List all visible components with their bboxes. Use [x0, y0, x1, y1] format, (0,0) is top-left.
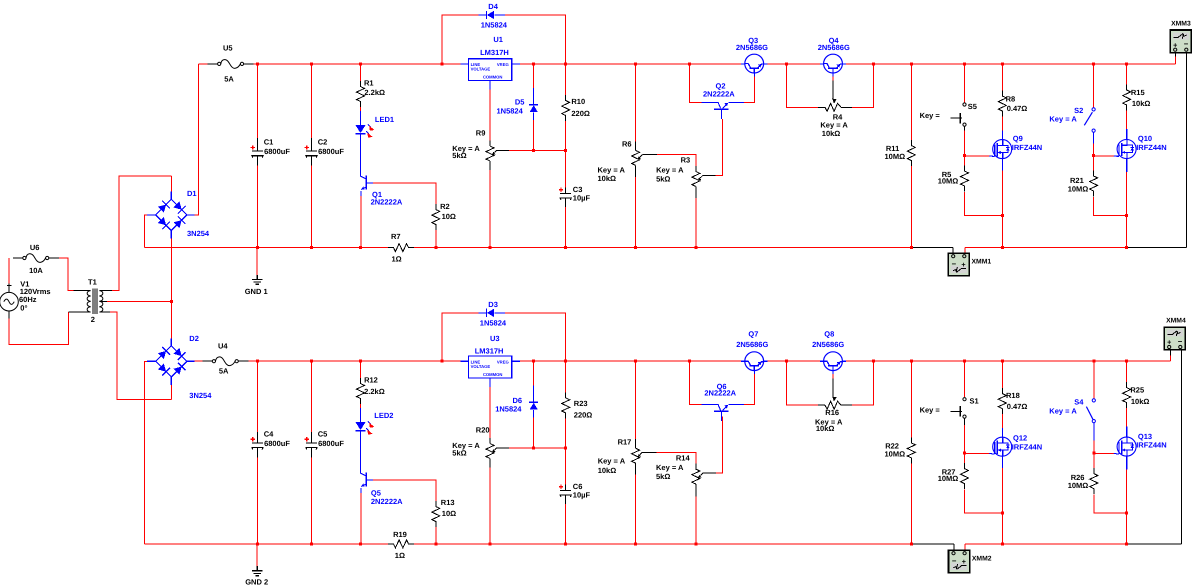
svg-text:GND 1: GND 1 [245, 287, 268, 296]
led LED2 [356, 411, 394, 435]
node S4 gate junction [1092, 451, 1095, 454]
wire Q13 source to rail [1126, 456, 1128, 470]
svg-text:Key = A: Key = A [1049, 406, 1077, 415]
node S5 gate junction [963, 154, 966, 157]
svg-text:R16: R16 [825, 408, 839, 417]
svg-text:LED1: LED1 [375, 115, 394, 124]
wire rail black segment to XMM1 [911, 247, 953, 249]
capacitor C2 [305, 138, 345, 158]
wire rail black segment to XMM2 [911, 543, 954, 545]
wire R20 wiper row [497, 447, 509, 449]
node bottom lower rail junctions [256, 542, 259, 545]
transistor Q2 [703, 81, 735, 119]
svg-text:VOLTAGE: VOLTAGE [471, 67, 491, 72]
svg-text:2N2222A: 2N2222A [371, 497, 403, 506]
multimeter XMM2 [953, 544, 955, 553]
wire R12 branch [360, 361, 362, 378]
svg-text:5kΩ: 5kΩ [656, 174, 670, 183]
svg-text:Q12: Q12 [1013, 434, 1027, 443]
potentiometer R17 [598, 438, 643, 475]
svg-text:6800uF: 6800uF [264, 439, 290, 448]
potentiometer R3 [656, 156, 703, 198]
transistor Q4 [818, 36, 850, 73]
wire U6 to T1 primary top [59, 258, 74, 291]
svg-text:Q7: Q7 [748, 330, 758, 339]
transistor Q7 [736, 330, 768, 371]
node top rail junctions [256, 62, 259, 65]
wire rail black to XMM4 minus [1127, 543, 1182, 545]
svg-text:COMMON: COMMON [483, 372, 503, 377]
wire D2 ac bottom [170, 385, 172, 400]
svg-text:10Ω: 10Ω [442, 509, 456, 518]
wire to ground 1 [256, 248, 258, 275]
wire D6 branch [533, 361, 535, 385]
svg-text:10kΩ: 10kΩ [1131, 397, 1150, 406]
svg-text:XMM1: XMM1 [972, 259, 992, 266]
resistor R18 [998, 388, 1027, 414]
wire top rail [254, 63, 461, 65]
wire R17 branch [635, 361, 637, 439]
svg-text:Key = A: Key = A [656, 463, 684, 472]
op-amp U3 LM317H regulator [461, 360, 469, 362]
fuse U5 [208, 43, 254, 83]
svg-text:R15: R15 [1131, 88, 1145, 97]
wire S2 to Q10 gate [1094, 155, 1114, 157]
wire S1 to Q12 gate [965, 452, 990, 454]
wire U3 common down to R20 [489, 378, 491, 387]
wire S5 branch [964, 64, 966, 103]
svg-text:S4: S4 [1074, 397, 1084, 406]
svg-text:IRFZ44N: IRFZ44N [1012, 143, 1042, 152]
potentiometer R20 [452, 426, 497, 468]
capacitor C1 [251, 138, 291, 158]
svg-text:Q10: Q10 [1138, 134, 1152, 143]
svg-text:1Ω: 1Ω [395, 551, 405, 560]
capacitor C5 [305, 430, 345, 450]
wire R13 to rail [435, 527, 437, 544]
svg-text:+: + [961, 260, 965, 269]
svg-text:2N5686G: 2N5686G [736, 43, 768, 52]
svg-text:C5: C5 [318, 430, 328, 439]
node S2 gate junction [1092, 154, 1095, 157]
diode D4 [481, 2, 508, 29]
wire top rail left [199, 63, 208, 65]
svg-text:10MΩ: 10MΩ [938, 474, 959, 483]
svg-text:6800uF: 6800uF [318, 147, 344, 156]
switch S4 [1049, 397, 1095, 422]
svg-text:10A: 10A [29, 266, 43, 275]
wire Q2 collector loop [690, 64, 702, 103]
svg-text:LED2: LED2 [374, 411, 393, 420]
op-amp U1 LM317H regulator [461, 63, 469, 65]
svg-text:10MΩ: 10MΩ [938, 176, 959, 185]
svg-text:D4: D4 [488, 2, 498, 11]
wire bottom top rail [248, 360, 460, 362]
wire Q4 base to R4 wiper [832, 73, 834, 76]
svg-text:10kΩ: 10kΩ [598, 466, 617, 475]
wire Q10 source to rail [1126, 159, 1128, 173]
multimeter XMM1 [952, 248, 954, 257]
mosfet Q10 [1117, 134, 1167, 158]
wire R21 bottom over to Q10 source [1094, 197, 1127, 215]
wire R9 wiper row [497, 149, 509, 151]
wire S2 branch [1093, 64, 1095, 108]
svg-text:Key = A: Key = A [1049, 115, 1077, 124]
wire R25 branch [1126, 361, 1128, 383]
svg-text:U5: U5 [223, 43, 233, 52]
svg-text:3N254: 3N254 [187, 229, 210, 238]
svg-text:220Ω: 220Ω [574, 411, 593, 420]
wire lower rail of bottom half [144, 543, 388, 545]
svg-text:U1: U1 [493, 35, 503, 44]
svg-text:T1: T1 [88, 277, 97, 286]
svg-text:5kΩ: 5kΩ [452, 449, 466, 458]
wire C5 branch [311, 361, 313, 432]
wire T1 secondary bottom to D2 ac [103, 311, 110, 313]
svg-text:10µF: 10µF [573, 490, 591, 499]
svg-text:S1: S1 [970, 396, 979, 405]
wire Q5 emitter to rail [360, 488, 362, 493]
transistor Q5 [361, 466, 404, 506]
svg-text:D5: D5 [515, 97, 525, 106]
svg-text:XMM2: XMM2 [972, 556, 992, 563]
wire Q8 base to R16 wiper [832, 371, 834, 374]
svg-text:R19: R19 [393, 530, 407, 539]
svg-text:−: − [952, 260, 957, 269]
bridge rectifier D1 [147, 189, 210, 238]
wire R22 branch [910, 361, 912, 437]
svg-text:2.2kΩ: 2.2kΩ [364, 88, 385, 97]
wire S1 branch [964, 361, 966, 397]
svg-text:VREG: VREG [497, 359, 509, 364]
svg-text:R10: R10 [571, 97, 585, 106]
potentiometer R9 [452, 128, 497, 170]
wire R20 bottom to rail [489, 468, 491, 544]
wire XMM2 right to Q12 source line [965, 543, 1127, 545]
svg-text:5kΩ: 5kΩ [452, 151, 466, 160]
svg-text:R18: R18 [1006, 391, 1020, 400]
svg-text:5A: 5A [219, 366, 229, 375]
wire down to R27 [964, 453, 966, 465]
svg-text:R20: R20 [476, 426, 490, 435]
wire R11 branch [910, 64, 912, 140]
svg-text:R12: R12 [364, 376, 378, 385]
svg-text:2N2222A: 2N2222A [704, 389, 736, 398]
resistor R19 [388, 530, 414, 560]
svg-text:220Ω: 220Ω [571, 109, 590, 118]
svg-text:10kΩ: 10kΩ [822, 129, 841, 138]
switch S1 [920, 396, 979, 418]
potentiometer R14 [656, 454, 703, 497]
svg-text:XMM4: XMM4 [1166, 318, 1186, 325]
capacitor C3 [559, 185, 591, 202]
wire D2 dc- down to bottom rail [144, 361, 147, 544]
wire R5 bottom over to Q9 source [965, 192, 1003, 215]
svg-text:R13: R13 [441, 498, 455, 507]
wire R16 loop left [786, 361, 818, 405]
wire D1 ac top [170, 176, 172, 191]
wire D1 dc+ up to top rail [195, 64, 199, 215]
svg-text:C1: C1 [264, 138, 274, 147]
svg-text:Key = A: Key = A [598, 457, 626, 466]
svg-text:R8: R8 [1006, 95, 1016, 104]
resistor R12 [357, 376, 385, 405]
svg-text:R17: R17 [618, 438, 632, 447]
wire D1 ac bottom to center tap [170, 239, 172, 302]
svg-text:R7: R7 [391, 232, 401, 241]
wire S4 branch [1093, 361, 1095, 398]
svg-text:S5: S5 [968, 102, 977, 111]
wire to ground 2 [256, 544, 258, 567]
svg-text:+: + [962, 557, 966, 566]
wire Q12 source to rail [1001, 456, 1003, 468]
wire Q1 emitter to rail [360, 191, 362, 196]
resistor R22 [885, 437, 916, 463]
svg-text:−: − [952, 557, 957, 566]
ground GND 1 [245, 275, 268, 296]
capacitor C6 [559, 482, 591, 499]
resistor R1 [357, 79, 386, 108]
svg-text:10µF: 10µF [573, 193, 591, 202]
wire rail to XMM3 plus [1174, 56, 1176, 64]
svg-text:Key =: Key = [920, 406, 941, 415]
wire V1 bottom loop to T1 primary bottom [9, 312, 69, 345]
wire R23 C6 branch [565, 361, 567, 392]
node lower rail junctions [256, 246, 259, 249]
svg-text:2: 2 [91, 315, 95, 324]
wire down to R5 [964, 155, 966, 167]
svg-text:0.47Ω: 0.47Ω [1007, 402, 1028, 411]
wire R27 bottom over to Q12 source [965, 490, 1003, 513]
svg-text:10kΩ: 10kΩ [1132, 99, 1151, 108]
svg-text:5kΩ: 5kΩ [656, 472, 670, 481]
wire C4 branch [257, 361, 259, 432]
switch S2 [1049, 106, 1095, 132]
wire V1 top to fuse U6 [8, 258, 10, 283]
wire R8 branch [1001, 64, 1003, 91]
wire D4 loop [442, 15, 479, 64]
svg-text:0.47Ω: 0.47Ω [1007, 104, 1028, 113]
svg-text:10Ω: 10Ω [442, 212, 456, 221]
potentiometer R6 [598, 140, 643, 183]
wire R2 to rail [435, 230, 437, 248]
svg-text:2N5686G: 2N5686G [736, 340, 768, 349]
transistor Q6 [704, 382, 736, 421]
wire R1 to LED1 [360, 107, 362, 111]
wire C2 branch [311, 64, 313, 138]
wire R15 branch [1126, 64, 1128, 85]
svg-text:6800uF: 6800uF [318, 439, 344, 448]
svg-text:U3: U3 [490, 334, 500, 343]
wire D5 branch [533, 64, 535, 88]
resistor R25 [1123, 382, 1150, 408]
resistor R23 [562, 392, 593, 419]
resistor R7 [388, 232, 414, 263]
resistor R10 [562, 95, 590, 121]
svg-text:−: − [1178, 337, 1183, 346]
wire R18 branch [1001, 361, 1003, 388]
svg-text:U6: U6 [30, 243, 40, 252]
capacitor C4 [251, 430, 291, 450]
wire R17 wiper to R14 top [642, 451, 656, 453]
resistor R26 [1068, 468, 1098, 494]
svg-text:R1: R1 [364, 79, 374, 88]
svg-text:1N5824: 1N5824 [481, 21, 508, 30]
svg-text:C2: C2 [318, 138, 328, 147]
resistor R8 [998, 91, 1027, 117]
diode D3 [480, 300, 507, 328]
mosfet Q13 [1117, 432, 1167, 456]
wire C1 branch [257, 64, 259, 138]
svg-text:Key = A: Key = A [656, 166, 684, 175]
svg-text:LM317H: LM317H [475, 347, 504, 356]
svg-text:COMMON: COMMON [483, 75, 503, 80]
resistor R11 [885, 140, 916, 166]
svg-text:R14: R14 [676, 454, 691, 463]
wire Q6 collector loop [690, 361, 702, 404]
wire D3 loop [442, 313, 479, 361]
diode D5 [497, 97, 539, 115]
wire R26 bottom over to Q13 source [1094, 495, 1127, 513]
wire lower rail of top half [144, 247, 388, 249]
svg-text:Q9: Q9 [1013, 134, 1023, 143]
multimeter XMM3 [1170, 20, 1191, 52]
wire T1 center tap [103, 300, 107, 302]
ground GND 2 [245, 566, 268, 586]
wire down to R26 [1093, 453, 1095, 470]
svg-text:1N5824: 1N5824 [497, 106, 524, 115]
svg-text:10kΩ: 10kΩ [816, 424, 835, 433]
wire rail to XMM4 plus [1169, 356, 1171, 362]
svg-text:C4: C4 [264, 430, 274, 439]
wire LED1 to Q1 collector [360, 134, 362, 169]
svg-text:XMM3: XMM3 [1171, 20, 1191, 27]
svg-text:3N254: 3N254 [189, 391, 212, 400]
wire S5 to Q9 gate [965, 155, 990, 157]
led LED1 [356, 115, 395, 138]
svg-text:LM317H: LM317H [480, 48, 509, 57]
resistor R27 [938, 463, 969, 489]
svg-text:R25: R25 [1130, 386, 1144, 395]
multimeter XMM4 [1164, 318, 1186, 350]
wire D1 dc- down to lower rail [144, 215, 147, 248]
wire D2 dc+ to fuse U4 [187, 360, 195, 362]
wire R1 branch [360, 64, 362, 81]
wire Q9 source to rail [1001, 159, 1003, 171]
svg-text:R23: R23 [574, 399, 588, 408]
resistor R5 [938, 166, 969, 192]
wire S4 to Q13 gate [1094, 452, 1114, 454]
wire Q6 emitter to Q7 base [729, 404, 744, 406]
wire Q1 base to R2 [373, 183, 436, 204]
svg-text:R2: R2 [440, 202, 450, 211]
wire Q2 emitter to Q3 base [729, 102, 744, 104]
fuse U6 [13, 243, 59, 275]
wire LED2 to Q5 collector [360, 431, 362, 466]
wire rail black to XMM3 minus [1127, 247, 1187, 249]
svg-text:2N5686G: 2N5686G [818, 43, 850, 52]
svg-text:1N5824: 1N5824 [480, 319, 507, 328]
potentiometer R4 [818, 103, 852, 138]
svg-text:VOLTAGE: VOLTAGE [471, 364, 491, 369]
svg-text:5A: 5A [224, 74, 234, 83]
svg-text:U4: U4 [218, 341, 228, 350]
transistor Q3 [736, 36, 768, 73]
wire down to R21 [1093, 155, 1095, 172]
resistor R2 [432, 202, 456, 230]
svg-text:IRFZ44N: IRFZ44N [1012, 443, 1042, 452]
wire R16 loop right [852, 361, 874, 405]
svg-text:2N2222A: 2N2222A [371, 198, 403, 207]
svg-text:10MΩ: 10MΩ [1068, 184, 1089, 193]
node bottom top rail junctions [256, 360, 259, 363]
svg-text:10MΩ: 10MΩ [885, 450, 906, 459]
wire R3 wiper up to Q2 base [703, 175, 716, 177]
svg-text:Key =: Key = [920, 111, 941, 120]
ac source V1 [0, 280, 51, 319]
resistor R21 [1068, 171, 1098, 197]
wire U1 common down to R9 [489, 81, 491, 90]
wire R6 wiper to R3 top [642, 154, 656, 156]
svg-text:GND 2: GND 2 [245, 577, 268, 586]
wire Q5 base to R13 [373, 480, 436, 501]
svg-text:D1: D1 [187, 189, 197, 198]
wire XMM1 right to Q9 source line [965, 247, 1127, 249]
svg-text:10kΩ: 10kΩ [598, 174, 617, 183]
wire R4 loop right [852, 64, 874, 107]
svg-text:D3: D3 [488, 300, 498, 309]
wire R10 C3 branch [565, 64, 567, 95]
transistor Q1 [361, 169, 403, 207]
svg-text:2N5686G: 2N5686G [812, 340, 844, 349]
transistor Q8 [812, 330, 846, 371]
resistor R13 [432, 498, 456, 527]
svg-text:R6: R6 [622, 140, 632, 149]
svg-text:R9: R9 [476, 128, 486, 137]
svg-text:−: − [1184, 40, 1189, 49]
svg-text:10MΩ: 10MΩ [885, 152, 906, 161]
wire R14 wiper up to Q6 base [703, 472, 716, 474]
svg-text:10MΩ: 10MΩ [1068, 481, 1089, 490]
svg-text:VREG: VREG [497, 62, 509, 67]
svg-text:6800uF: 6800uF [264, 147, 290, 156]
mosfet Q12 [993, 434, 1042, 457]
svg-text:IRFZ44N: IRFZ44N [1136, 441, 1166, 450]
wire R4 loop left [786, 64, 818, 107]
switch S5 [920, 102, 977, 126]
svg-text:0°: 0° [20, 304, 27, 313]
diode D6 [495, 396, 538, 413]
svg-text:2.2kΩ: 2.2kΩ [364, 387, 385, 396]
wire T1 secondary top to D1 ac [103, 290, 112, 292]
svg-text:IRFZ44N: IRFZ44N [1136, 143, 1166, 152]
svg-text:Q13: Q13 [1138, 432, 1152, 441]
svg-text:R3: R3 [681, 156, 691, 165]
node center tap junction [170, 300, 173, 303]
node S1 gate junction [963, 451, 966, 454]
wire R12 to LED2 [360, 404, 362, 408]
wire R9 bottom to rail [489, 170, 491, 248]
svg-text:Q8: Q8 [824, 330, 834, 339]
svg-text:2N2222A: 2N2222A [703, 89, 735, 98]
wire R6 branch [635, 64, 637, 142]
potentiometer R16 [815, 401, 852, 433]
wire center tap down to D2 [170, 301, 172, 338]
mosfet Q9 [993, 134, 1043, 159]
svg-text:1Ω: 1Ω [392, 254, 402, 263]
bridge rectifier D2 [147, 334, 212, 400]
resistor R15 [1123, 85, 1151, 111]
